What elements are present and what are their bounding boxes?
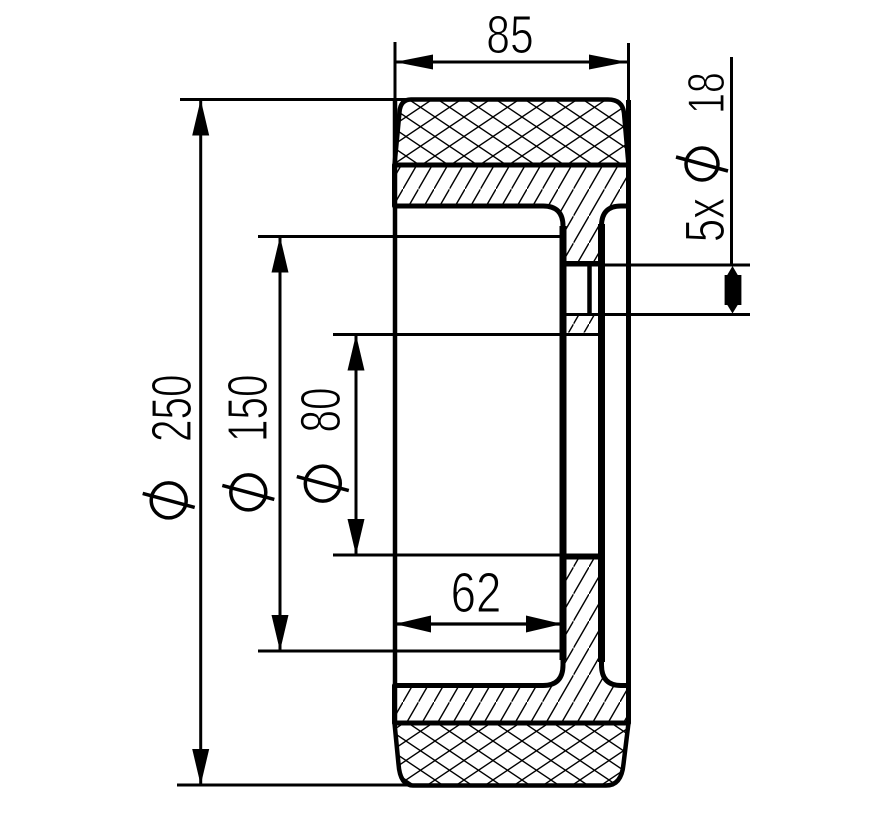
svg-text:18: 18 [677, 72, 736, 114]
svg-text:62: 62 [451, 560, 502, 624]
svg-text:80: 80 [289, 387, 352, 432]
svg-text:250: 250 [140, 375, 203, 443]
svg-text:85: 85 [486, 5, 533, 65]
svg-text:150: 150 [216, 375, 279, 443]
svg-text:5x: 5x [674, 198, 736, 243]
